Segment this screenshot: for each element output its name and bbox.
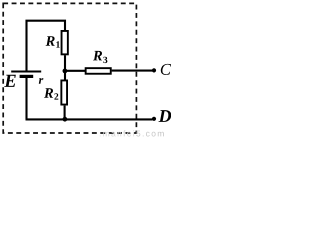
wire: battery top lead + top horizontal + down to R1 [27,21,66,71]
label R1 [46,36,60,47]
label R3 [93,51,107,63]
dashed black-box boundary [3,3,136,133]
resistor R3 [86,68,111,74]
battery cell E : short thick plate [20,75,34,78]
label R2 [44,88,58,99]
label r [39,78,44,84]
wire: junction A to R3 [65,70,85,72]
battery cell E : long plate [11,71,41,73]
wire: junction A to R2 [64,71,66,81]
resistor R1 [62,31,68,54]
wire: battery bottom lead [25,77,27,120]
terminal D dot [152,117,156,121]
resistor R2 [61,80,67,104]
label E [4,75,16,87]
label C [161,64,171,75]
wire: R1 bottom to junction A [64,55,66,72]
wire: R3 to terminal C [112,70,153,72]
wire: bottom horizontal to terminal D [26,118,153,120]
wire: R2 bottom lead to junction B [64,106,66,120]
label D [159,110,172,122]
junction node A [63,69,68,74]
watermark [100,130,134,136]
junction node B [63,117,68,122]
terminal C dot [152,68,156,72]
